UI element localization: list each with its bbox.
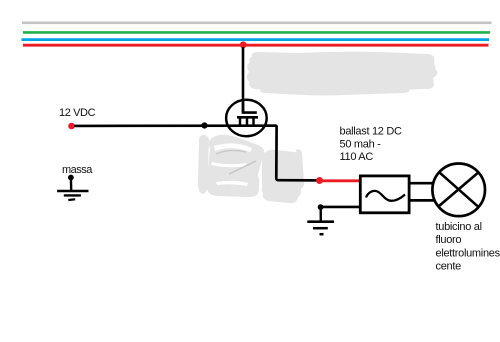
svg-text:110 AC: 110 AC <box>340 151 374 163</box>
wire ballast lower return <box>321 206 359 209</box>
wire lamp upper <box>409 182 434 185</box>
svg-text:50 mah -: 50 mah - <box>340 138 382 150</box>
node junction on red bus <box>240 41 247 48</box>
wire drain from red bus <box>242 47 245 113</box>
ground G2 <box>307 207 334 234</box>
svg-text:massa: massa <box>62 164 93 176</box>
node left terminal <box>68 123 75 130</box>
wire drain-side down to output <box>264 126 318 181</box>
transistor Q1 <box>226 100 267 136</box>
node ground2 tap <box>318 204 324 210</box>
node junction A <box>201 122 207 128</box>
eraser smudge top <box>247 52 438 96</box>
wire lamp lower <box>409 199 435 202</box>
wire red bus <box>23 44 489 47</box>
wire red to ballast <box>323 179 360 182</box>
lamp LP1 <box>432 164 485 217</box>
wire gray bus <box>22 21 492 24</box>
eraser smudge middle <box>198 135 304 203</box>
ground G1 massa <box>57 175 88 200</box>
svg-text:tubicino al: tubicino al <box>436 221 482 233</box>
ballast sine mark <box>366 191 405 201</box>
svg-text:12 VDC: 12 VDC <box>59 107 96 119</box>
wire blue bus <box>22 38 490 41</box>
svg-text:cente: cente <box>436 261 462 273</box>
svg-text:elettrolumines: elettrolumines <box>436 247 500 259</box>
wire source horizontal <box>74 124 276 127</box>
svg-text:ballast 12 DC: ballast 12 DC <box>340 126 402 138</box>
ballast U1 <box>360 176 409 213</box>
node output red dot <box>316 177 323 184</box>
wire green bus <box>23 31 490 34</box>
svg-text:fluoro: fluoro <box>436 234 462 246</box>
